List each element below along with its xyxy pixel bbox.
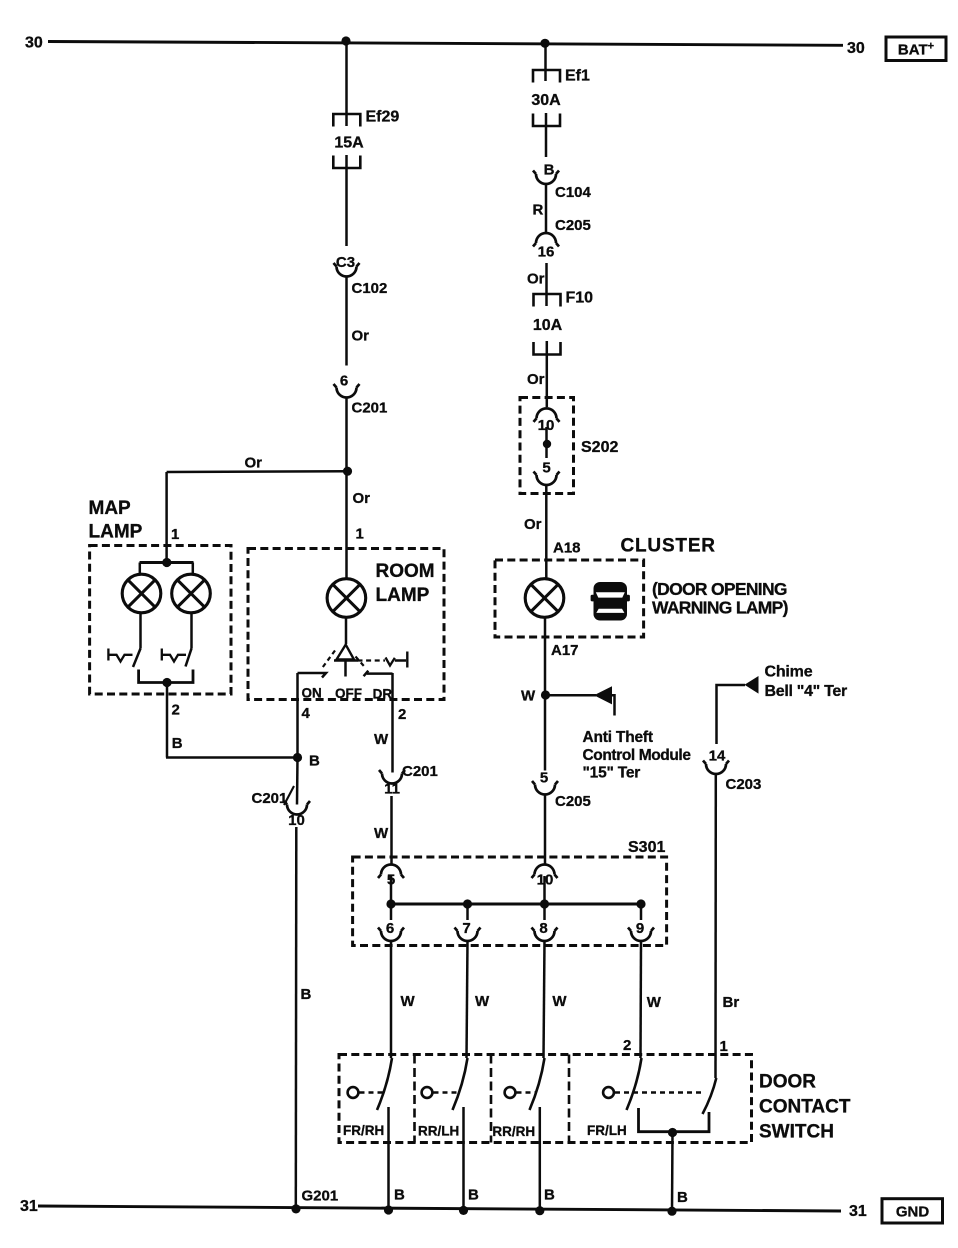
wire room lamp pin 2 down (391, 673, 394, 773)
room lamp lower wire (345, 617, 348, 644)
junction on rail 30 (left branch) (341, 36, 350, 45)
wire junction to C201 pin 10 (296, 758, 299, 805)
svg-text:C201: C201 (402, 763, 438, 780)
DOOR CONTACT SWITCH box (dashed) (339, 1055, 752, 1143)
switch throw to DR (dashed) (356, 657, 367, 669)
svg-text:GND: GND (896, 1204, 930, 1221)
wire rail to fuse Ef29 (345, 41, 348, 126)
junction on rail 31 (FR/LH) (667, 1207, 676, 1216)
svg-text:DR: DR (373, 687, 393, 702)
plunger contact circle (422, 1087, 433, 1098)
top supply rail 30 (BAT+) (48, 42, 843, 46)
junction G201 on rail 31 (291, 1204, 300, 1213)
svg-text:Ef1: Ef1 (565, 68, 590, 85)
svg-text:30: 30 (847, 40, 865, 57)
wire to room lamp pin 1 (345, 471, 348, 579)
svg-text:9: 9 (636, 920, 644, 937)
svg-text:OFF: OFF (335, 686, 362, 701)
svg-text:Ef29: Ef29 (366, 109, 400, 126)
svg-text:Anti Theft: Anti Theft (583, 729, 653, 746)
svg-text:5: 5 (542, 460, 550, 477)
car icon (top view) (591, 582, 630, 621)
wire RR/LH to ground rail (462, 1107, 465, 1211)
door warning lamp in cluster (525, 579, 564, 618)
plunger linkage (dashed) (517, 1091, 537, 1093)
S202 pin 10 connector (534, 408, 560, 422)
stub pin10 to bus (543, 876, 546, 904)
map lamp bulb right (172, 574, 211, 613)
svg-text:ON: ON (302, 686, 322, 701)
svg-text:C205: C205 (555, 793, 591, 810)
stub to right bulb (192, 563, 195, 575)
plunger linkage (dashed) (615, 1091, 703, 1093)
bus junction pin5/6 (386, 899, 395, 908)
svg-text:4: 4 (302, 705, 311, 722)
wire C205 to S301 pin 10 (544, 795, 547, 865)
svg-text:Or: Or (524, 516, 542, 533)
switch blade (530, 1058, 545, 1110)
S301 splice box (dashed) (353, 857, 667, 946)
svg-text:(DOOR OPENING: (DOOR OPENING (652, 579, 787, 599)
svg-text:Control Module: Control Module (583, 747, 692, 764)
map lamp feed tee bar (140, 561, 194, 564)
svg-text:Bell "4" Ter: Bell "4" Ter (765, 683, 847, 700)
leader line C201 (284, 786, 294, 805)
svg-text:1: 1 (171, 526, 179, 543)
svg-text:C201: C201 (252, 790, 288, 807)
bus junction pin7 (463, 899, 472, 908)
svg-text:CONTACT: CONTACT (759, 1097, 851, 1118)
svg-text:A18: A18 (553, 540, 581, 557)
switch blade (627, 1058, 642, 1110)
svg-text:1: 1 (720, 1038, 728, 1055)
GND terminal box (882, 1199, 943, 1223)
svg-text:WARNING LAMP): WARNING LAMP) (652, 598, 788, 618)
switch blade (chime pole) (703, 1078, 717, 1114)
stub bus to pin 6 (390, 904, 393, 920)
linkage spring v (386, 658, 395, 666)
svg-text:RR/LH: RR/LH (418, 1124, 459, 1139)
switch blade (377, 1058, 392, 1110)
junction on rail 31 (RR/LH) (459, 1206, 468, 1215)
stub pin5 to bus (390, 876, 393, 904)
wire FR/LH to ground rail (671, 1133, 674, 1211)
wire S301-6 to door switch FR/RH (390, 941, 393, 1058)
svg-text:10A: 10A (533, 317, 563, 334)
linkage anchor (395, 652, 408, 668)
wire to chime bell (717, 685, 746, 744)
svg-text:S202: S202 (581, 439, 618, 456)
wire cluster lamp to W junction (544, 618, 547, 696)
svg-text:ROOM: ROOM (376, 561, 435, 582)
connector C203 (703, 761, 729, 775)
svg-text:W: W (521, 688, 536, 705)
splice stub (545, 427, 548, 458)
plunger linkage (dashed) (360, 1091, 384, 1093)
wire C201-11 to S301 pin 5 (390, 796, 393, 865)
wire W junction to C205 pin 5 (544, 695, 547, 771)
connector C104 (533, 171, 559, 185)
wire rail to fuse Ef1 (544, 43, 547, 81)
junction FR/LH return (668, 1128, 677, 1137)
wire B down to G201 (295, 827, 298, 1209)
svg-text:2: 2 (398, 706, 406, 723)
svg-text:B: B (309, 753, 320, 770)
CLUSTER box (dashed) (495, 560, 644, 637)
S301 pin 6 connector (378, 928, 404, 942)
wire map lamp pin 2 down (166, 683, 169, 758)
S301 internal bus (391, 903, 641, 906)
junction on rail 30 (right branch) (540, 39, 549, 48)
wire S202 to cluster A18, orange (545, 485, 548, 579)
connector C201 pin 6 (334, 384, 360, 398)
wire S301-7 to door switch RR/LH (467, 941, 468, 1058)
junction node (Or split) (343, 467, 352, 476)
svg-text:A17: A17 (551, 642, 579, 659)
wire to anti-theft module (546, 694, 597, 697)
svg-text:W: W (374, 731, 389, 748)
DR fixed contact (364, 671, 393, 677)
plunger contact circle (348, 1087, 359, 1098)
svg-text:C104: C104 (555, 184, 592, 201)
ON fixed contact (298, 673, 327, 678)
switch stem (344, 661, 347, 677)
svg-text:Br: Br (723, 994, 740, 1011)
connector C201 pin 10 (284, 801, 310, 815)
connector C205 pin 16 (533, 233, 559, 247)
connector C102 (female) (334, 263, 360, 277)
svg-text:8: 8 (539, 920, 547, 937)
junction on rail 31 (RR/RH) (535, 1206, 544, 1215)
right bulb lower wire (190, 613, 193, 649)
svg-text:Or: Or (527, 271, 545, 288)
svg-text:6: 6 (340, 373, 348, 390)
wire RR/RH to ground rail (539, 1107, 542, 1211)
svg-text:7: 7 (462, 920, 470, 937)
svg-text:16: 16 (538, 244, 555, 261)
left switch fixed contact (108, 649, 132, 662)
S301 pin 5 connector (378, 865, 404, 878)
wire S301-8 to door switch RR/RH (544, 941, 545, 1058)
svg-text:10: 10 (288, 812, 305, 829)
wire room lamp pin 4 down (296, 673, 299, 758)
S301 pin 10 connector (532, 865, 558, 878)
svg-text:B: B (172, 735, 183, 752)
cell divider 3 (568, 1055, 571, 1143)
svg-text:S301: S301 (628, 839, 665, 856)
svg-text:SWITCH: SWITCH (759, 1122, 834, 1143)
bottom ground rail 31 (GND) (38, 1206, 841, 1211)
svg-text:W: W (374, 825, 389, 842)
fuse Ef29 15A (333, 114, 360, 127)
stub bus to pin 7 (466, 904, 469, 920)
wire stub down (anti-theft) (612, 695, 615, 715)
svg-text:BAT+: BAT+ (898, 41, 934, 59)
svg-text:W: W (401, 993, 416, 1010)
junction B (map+room returns) (293, 753, 302, 762)
arrow to anti theft module (594, 686, 612, 704)
room lamp bulb (327, 579, 366, 618)
svg-text:31: 31 (849, 1203, 867, 1220)
svg-text:Or: Or (353, 490, 371, 507)
splice S202 (543, 440, 551, 448)
stub bus to pin 9 (640, 904, 643, 920)
wire C203 to door switch, brown (714, 774, 717, 1078)
svg-text:B: B (468, 1187, 479, 1204)
svg-text:2: 2 (623, 1037, 631, 1054)
svg-text:B: B (394, 1187, 405, 1204)
plunger linkage (dashed) (434, 1091, 460, 1093)
wire Ef29 to C102 (345, 155, 348, 246)
svg-text:LAMP: LAMP (89, 522, 143, 543)
ROOM LAMP box (dashed) (248, 549, 444, 700)
svg-text:B: B (544, 1187, 555, 1204)
wire C205 to F10, orange (545, 263, 548, 306)
wire to map lamp pin 1 (165, 472, 168, 563)
plunger contact circle (505, 1087, 516, 1098)
svg-text:5: 5 (540, 770, 548, 787)
svg-text:Or: Or (245, 455, 263, 472)
svg-text:R: R (533, 202, 544, 219)
BAT+ terminal box (886, 37, 946, 61)
svg-text:31: 31 (20, 1198, 38, 1215)
svg-text:MAP: MAP (89, 498, 132, 519)
svg-text:C102: C102 (352, 280, 388, 297)
cell divider 1 (413, 1055, 416, 1143)
svg-text:C3: C3 (336, 254, 355, 271)
svg-text:Or: Or (352, 328, 370, 345)
svg-text:C205: C205 (555, 217, 591, 234)
bus junction pin8/10 (540, 899, 549, 908)
svg-text:W: W (647, 994, 662, 1011)
svg-text:B: B (677, 1189, 688, 1206)
MAP LAMP box (dashed) (90, 546, 231, 695)
svg-text:W: W (475, 993, 490, 1010)
svg-text:B: B (301, 986, 312, 1003)
linkage to door switch (dashed) (358, 659, 386, 661)
junction map lamp return (162, 678, 171, 687)
switch blade (453, 1058, 468, 1110)
FR/LH output link bar (639, 1108, 710, 1132)
map lamp return collector (139, 670, 193, 683)
wire C201 to junction (345, 398, 348, 472)
stub to left bulb (139, 563, 142, 575)
junction on rail 31 (FR/RH) (384, 1205, 393, 1214)
plunger contact circle (603, 1087, 614, 1098)
right bulb switch blade (186, 649, 192, 667)
arrow to chime bell (745, 676, 759, 694)
connector C201 pin 11 (379, 770, 405, 784)
wire B to junction (horizontal) (166, 756, 298, 759)
map lamp bulb left (122, 574, 161, 613)
svg-text:C201: C201 (352, 400, 388, 417)
stub bus to pin 8 (543, 904, 546, 920)
wire Or to map lamp (horizontal) (167, 470, 348, 473)
pivot base bar (334, 659, 358, 661)
S301 pin 8 connector (532, 928, 558, 942)
junction map lamp tee (162, 558, 171, 567)
right switch fixed contact (162, 649, 186, 662)
left bulb switch blade (133, 649, 141, 668)
svg-text:C203: C203 (726, 776, 762, 793)
svg-text:2: 2 (172, 702, 180, 719)
svg-text:DOOR: DOOR (759, 1072, 816, 1093)
connector C205 pin 5 (532, 781, 558, 795)
wire C104 to C205, red (545, 184, 548, 233)
S202 pin 5 connector (534, 472, 560, 486)
junction W (anti-theft tap) (541, 690, 550, 699)
wire Ef1 to C104 (545, 113, 548, 157)
left bulb lower wire (139, 613, 142, 649)
wire F10 to S202 (546, 341, 549, 407)
rotary switch pivot triangle (337, 645, 355, 660)
wire C102 to C201, orange (345, 277, 348, 366)
S301 pin 9 connector (628, 928, 654, 941)
wire S301-9 to door switch FR/LH (639, 941, 642, 1058)
svg-text:W: W (552, 993, 567, 1010)
svg-text:30: 30 (25, 35, 43, 52)
svg-text:F10: F10 (566, 290, 594, 307)
svg-text:LAMP: LAMP (376, 585, 430, 606)
svg-text:Or: Or (527, 371, 545, 388)
switch throw to ON (dashed) (323, 651, 336, 668)
svg-text:CLUSTER: CLUSTER (621, 536, 716, 557)
fuse F10 10A (534, 294, 561, 307)
svg-text:14: 14 (709, 748, 726, 765)
svg-text:6: 6 (386, 920, 394, 937)
svg-text:Chime: Chime (765, 664, 813, 681)
svg-text:"15" Ter: "15" Ter (583, 765, 641, 782)
svg-text:FR/RH: FR/RH (343, 1123, 384, 1138)
svg-text:RR/RH: RR/RH (492, 1124, 535, 1139)
S301 pin 7 connector (455, 928, 481, 942)
svg-text:11: 11 (384, 781, 400, 798)
wire FR/RH to ground rail (387, 1107, 390, 1211)
fuse Ef1 30A (533, 70, 560, 83)
svg-text:1: 1 (356, 526, 364, 543)
bus junction pin9 (636, 899, 645, 908)
svg-text:15A: 15A (334, 135, 364, 152)
svg-text:FR/LH: FR/LH (587, 1123, 627, 1138)
S202 splice box (dashed) (520, 398, 574, 494)
svg-text:30A: 30A (531, 92, 561, 109)
svg-text:G201: G201 (302, 1188, 339, 1205)
svg-text:B: B (544, 162, 555, 179)
cell divider 2 (490, 1055, 493, 1143)
